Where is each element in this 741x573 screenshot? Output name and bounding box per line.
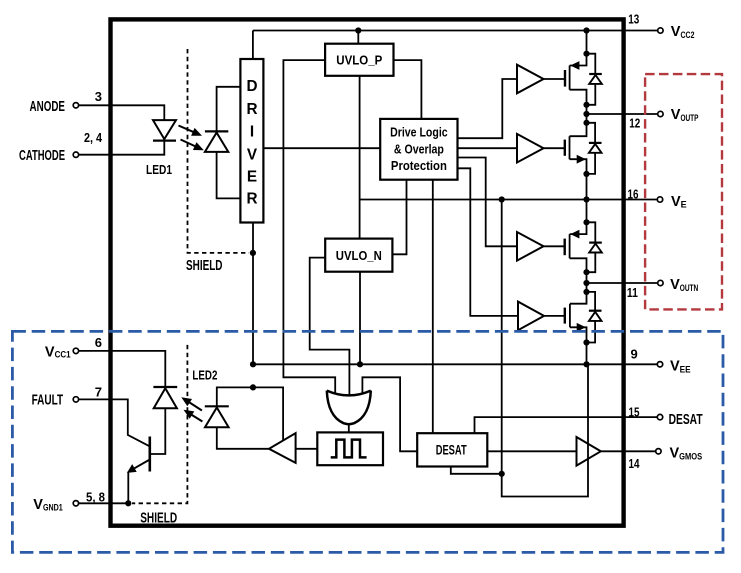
wire: VCC1 pin 6 to photodiode PD2 cathode xyxy=(78,351,165,387)
svg-text:FAULT: FAULT xyxy=(32,393,64,409)
terminal: VOUTN pin 11 xyxy=(658,280,663,285)
wire: DRIVER output to Drive Logic input xyxy=(263,147,380,149)
svg-text:DESAT: DESAT xyxy=(436,442,467,458)
photodiode PD2 (fault receiver) xyxy=(153,387,177,408)
node: VEE line left end xyxy=(250,361,256,367)
wire: buffer U2 output to Q2 gate xyxy=(544,147,565,149)
blue dashed isolation boundary box (low side) xyxy=(12,331,723,552)
svg-text:R: R xyxy=(246,190,257,207)
svg-text:11: 11 xyxy=(627,285,638,300)
wire: VEE line to pin 9 xyxy=(253,363,657,365)
node: LED2 feedback junction xyxy=(250,384,256,390)
wire: UVLO_P right output to Drive Logic top xyxy=(394,60,422,119)
wire: VE sense rail down to DESAT bottom node xyxy=(501,200,503,474)
terminal: VOUTP pin 12 xyxy=(658,111,663,116)
buffer U7 (VGMOS output) xyxy=(577,437,601,466)
transistor Q5 (NPN fault output) xyxy=(127,437,150,473)
UVLO_P block xyxy=(325,44,393,76)
wire: Drive Logic bottom to UVLO_N right input xyxy=(392,180,406,255)
inverter U5 (pointing left) xyxy=(269,433,296,463)
wire: VOUTP node to pin 12 xyxy=(587,113,658,115)
pulse generator block (one-shot) xyxy=(317,432,383,465)
terminal: VE pin 16 xyxy=(657,197,662,202)
terminal: CATHODE pin 2,4 xyxy=(73,152,78,157)
wire: buffer U3 output to Q3 gate xyxy=(544,245,565,247)
wire: rail Q4 source down to VEE line xyxy=(586,343,588,365)
svg-text:12: 12 xyxy=(629,115,640,130)
photodiode PD1 (driver side) xyxy=(205,131,228,152)
transistor Q4 (NMOS with body diode D4) xyxy=(565,292,602,343)
svg-text:15: 15 xyxy=(629,404,640,419)
svg-text:UVLO_N: UVLO_N xyxy=(336,248,382,263)
node: DESAT bottom junction xyxy=(499,471,505,477)
wire: Drive Logic output 3 to buffer U3 xyxy=(458,158,518,247)
wire: Drive Logic output 4 to buffer U4 xyxy=(458,168,519,316)
buffer U2 xyxy=(517,134,544,163)
wire: LED2 anode to inverter U5 output xyxy=(217,427,269,449)
wire: DESAT block top-right jog to pin 15 xyxy=(475,417,658,433)
wire: rail VE line down to Q3 drain xyxy=(586,200,588,223)
wire: DESAT block output to VGMOS buffer xyxy=(487,450,576,452)
svg-text:13: 13 xyxy=(628,12,639,27)
opto arrows LED1 to PD1 xyxy=(179,126,204,151)
node: Q2 drain xyxy=(583,120,589,126)
buffer U1 xyxy=(517,65,544,94)
terminal: VCC2 pin 13 xyxy=(658,28,663,33)
node: VOUTN junction xyxy=(583,280,589,286)
wire: DRIVER top connector to VCC2 rail xyxy=(252,31,254,60)
wire: UVLO_N left output down to OR gate center input xyxy=(310,258,350,395)
wire: UVLO_P top connector from VCC2 rail xyxy=(357,31,359,44)
buffer U4 xyxy=(518,302,544,331)
svg-text:7: 7 xyxy=(95,385,102,400)
terminal: DESAT pin 15 xyxy=(657,414,662,419)
svg-text:3: 3 xyxy=(95,89,102,104)
wire: VGND1 pin 5,8 to emitter node xyxy=(78,502,128,504)
wire: OR gate output to pulse generator xyxy=(348,424,350,432)
UVLO_N block xyxy=(325,239,392,272)
node: Q4 source xyxy=(583,339,589,345)
node: shield tie on driver return xyxy=(250,250,256,256)
wire: DESAT block bottom connector to node xyxy=(451,467,502,474)
transistor Q2 (NMOS with body diode D2) xyxy=(565,123,602,174)
wire: photodiode PD2 anode to Q5 base xyxy=(150,408,166,454)
wire: photodiode PD1 anode to DRIVER input bottom xyxy=(217,152,241,199)
wire: rail Q2 source down to VE line xyxy=(586,174,588,200)
svg-text:LED2: LED2 xyxy=(192,368,217,383)
node: UVLO_N bottom tap on VEE line xyxy=(357,361,363,367)
node: output rail tap on VCC2 rail xyxy=(583,27,589,33)
svg-text:ANODE: ANODE xyxy=(30,99,66,115)
wire: UVLO_P bottom to UVLO_N top (VE sense line) xyxy=(359,76,361,239)
red dashed isolation boundary box (output pins) xyxy=(645,74,722,309)
terminal: FAULT pin 7 xyxy=(73,397,78,402)
svg-text:UVLO_P: UVLO_P xyxy=(336,53,382,68)
wire: Q5 emitter to VGND1 node xyxy=(127,472,129,504)
node: Q1 source xyxy=(583,102,589,108)
node: VGND1 emitter junction xyxy=(125,500,131,506)
opto arrows LED2 to PD2 xyxy=(181,397,202,421)
wire: feedback node to inverter U5 top xyxy=(253,387,283,441)
wire: VCC2 top rail to pin 13 xyxy=(253,30,658,32)
svg-text:R: R xyxy=(246,101,257,118)
shield 2 dashed line (fault side) xyxy=(132,345,187,503)
DESAT block xyxy=(417,433,487,466)
svg-text:& Overlap: & Overlap xyxy=(394,142,444,156)
terminal: VGND1 pin 5,8 xyxy=(73,501,78,506)
wire: photodiode PD1 cathode to DRIVER input top xyxy=(217,87,241,132)
svg-text:CATHODE: CATHODE xyxy=(19,148,65,164)
wire: VE line from UVLO stack to pin 16 xyxy=(360,199,658,201)
node: Q3 drain xyxy=(583,219,589,225)
wire: rail Q3 source to VOUTN node to Q4 drain xyxy=(586,272,588,292)
svg-text:Drive Logic: Drive Logic xyxy=(390,126,448,140)
wire: VGMOS buffer output to pin 14 xyxy=(601,450,656,452)
svg-text:E: E xyxy=(247,168,257,185)
wire: FAULT pin 7 to transistor Q5 collector xyxy=(78,399,149,446)
wire: buffer U1 output to Q1 gate xyxy=(544,78,566,80)
svg-text:14: 14 xyxy=(629,456,641,471)
svg-text:9: 9 xyxy=(631,346,638,361)
wire: DESAT bottom node loop to VEE junction xyxy=(502,364,588,496)
wire: pulse generator output to inverter U5 input xyxy=(296,448,318,450)
shield 1 dashed line (input side) xyxy=(188,49,250,253)
svg-text:V: V xyxy=(247,146,258,163)
wire: Drive Logic bottom down to DESAT block top xyxy=(432,180,434,434)
svg-text:I: I xyxy=(250,123,254,140)
terminal: VEE pin 9 xyxy=(657,362,662,367)
LED2 feedback diode xyxy=(205,406,229,427)
wire: CATHODE pin 2,4 to LED1 cathode xyxy=(78,140,164,154)
terminal: VGMOS pin 14 xyxy=(656,449,661,454)
DRIVER block U6 xyxy=(240,59,263,223)
node: UVLO_P tap on VCC2 rail xyxy=(355,27,361,33)
wire: rail Q1 source to VOUTP node to Q2 drain xyxy=(586,105,588,123)
svg-text:Protection: Protection xyxy=(391,159,447,173)
wire: Drive Logic output 1 to buffer U1 xyxy=(458,79,518,138)
wire: output rail VCC2 tap down to Q1 drain xyxy=(586,31,588,54)
wire: UVLO_P left output down to OR gate left input xyxy=(283,60,335,393)
OR gate G1 (pointing down) xyxy=(327,391,371,425)
svg-text:DESAT: DESAT xyxy=(669,412,703,428)
wire: ANODE pin 3 to LED1 anode xyxy=(78,105,164,120)
svg-text:16: 16 xyxy=(628,186,639,201)
svg-text:D: D xyxy=(246,78,257,95)
node: Q1 drain xyxy=(583,51,589,57)
terminal: VCC1 pin 6 xyxy=(73,348,78,353)
wire: LED2 cathode up to feedback node xyxy=(217,387,253,406)
node: VE rail tap xyxy=(499,196,505,202)
wire: VOUTN node to pin 11 xyxy=(587,282,658,284)
node: Q3 source xyxy=(583,269,589,275)
node: Q4 drain xyxy=(583,289,589,295)
buffer U3 xyxy=(517,232,544,261)
wire: DRIVER bottom connector down to VEE line xyxy=(252,223,254,365)
svg-text:LED1: LED1 xyxy=(146,162,172,177)
terminal: ANODE pin 3 xyxy=(73,103,78,108)
node: VEE output rail junction xyxy=(583,361,589,367)
LED1 input diode xyxy=(153,120,176,141)
node: Q2 source xyxy=(583,171,589,177)
IC package outline (main box) xyxy=(111,19,624,525)
wire: OR gate right input from DESAT feed xyxy=(362,377,417,451)
Drive Logic and Overlap Protection block xyxy=(380,119,457,180)
svg-text:2, 4: 2, 4 xyxy=(84,130,103,145)
wire: UVLO_N bottom connector to VEE line xyxy=(359,272,361,365)
transistor Q3 (PMOS with body diode D3) xyxy=(565,222,602,272)
node: VOUTP junction xyxy=(583,111,589,117)
svg-text:SHIELD: SHIELD xyxy=(140,511,177,527)
svg-text:SHIELD: SHIELD xyxy=(186,258,223,274)
svg-text:6: 6 xyxy=(95,335,102,350)
wire: Drive Logic output 2 to buffer U2 xyxy=(458,147,518,149)
node: VE output rail junction xyxy=(583,196,589,202)
wire: buffer U4 output to Q4 gate xyxy=(544,315,565,317)
svg-text:5, 8: 5, 8 xyxy=(86,490,105,505)
transistor Q1 (high-side PMOS with body diode D1) xyxy=(565,54,602,105)
